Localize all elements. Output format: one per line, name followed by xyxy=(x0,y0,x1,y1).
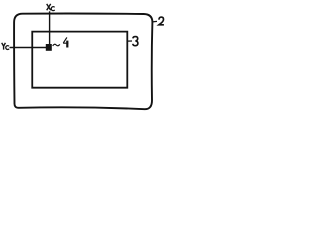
label 2 xyxy=(159,17,164,25)
outer display bezel 2 (rounded rectangle) xyxy=(14,14,152,110)
label 3 xyxy=(133,37,138,46)
leader wire from Xc label down to cursor square xyxy=(49,11,51,45)
label 4 xyxy=(63,37,68,47)
label Xc xyxy=(47,4,55,11)
inner screen area 3 (rectangle) xyxy=(32,32,127,88)
label Yc xyxy=(2,43,9,50)
cursor square 4 (filled) xyxy=(46,44,52,51)
tilde leader to label 4 xyxy=(53,44,60,46)
tick wire to label 3 xyxy=(128,40,132,42)
tick wire to label 2 xyxy=(152,20,157,23)
leader wire from Yc label right to cursor square xyxy=(10,47,48,49)
